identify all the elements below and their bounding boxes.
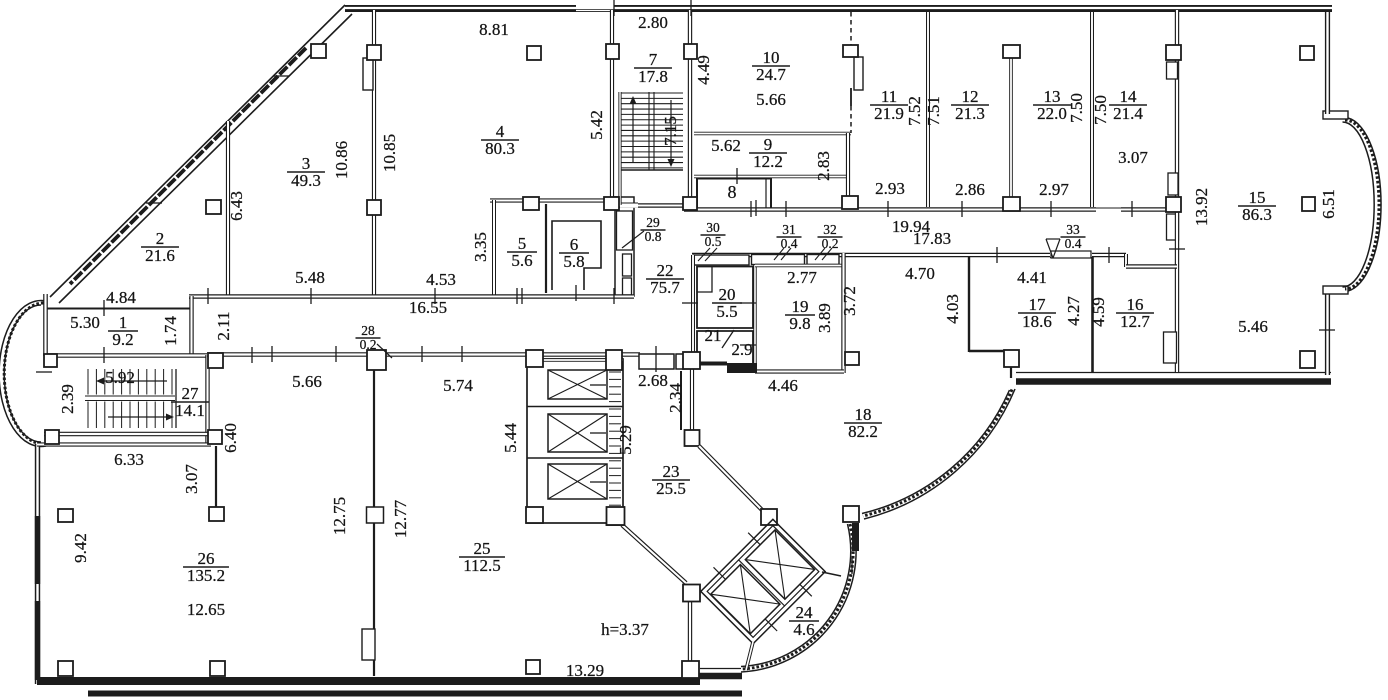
svg-text:0.2: 0.2 [822,236,839,251]
svg-text:32: 32 [823,222,837,237]
wall: corridor south jog [1124,254,1128,267]
column stair 27 SW [45,430,59,444]
wall: between rooms 2 and 3 [226,121,230,296]
svg-text:22.0: 22.0 [1037,104,1067,123]
tick room 27 wall [103,347,105,363]
vent shaft 31 box [752,255,805,265]
svg-text:8.81: 8.81 [479,20,509,39]
svg-text:2.83: 2.83 [814,151,833,181]
svg-text:2.34: 2.34 [666,383,685,413]
svg-text:4.49: 4.49 [694,55,713,85]
tick 16.55 d [516,288,518,304]
svg-text:5.48: 5.48 [295,268,325,287]
svg-text:7.50: 7.50 [1067,93,1086,123]
svg-text:4.27: 4.27 [1064,296,1083,326]
svg-text:8: 8 [728,182,737,202]
svg-text:7.52: 7.52 [905,96,924,126]
tick 5.66 b [335,346,337,362]
svg-text:29: 29 [646,215,660,230]
svg-text:7.51: 7.51 [924,96,943,126]
svg-text:2.77: 2.77 [787,268,817,287]
wall: stub from elevator bank to bottom [746,642,753,670]
wall: bottom exterior step to lobby [695,671,699,685]
door leader 33 [1046,239,1053,258]
svg-text:0.5: 0.5 [705,234,722,249]
door leader 28 [377,344,392,358]
wall: between rooms 5 and 6 [545,204,547,293]
svg-text:4.70: 4.70 [905,264,935,283]
svg-text:9.8: 9.8 [789,314,810,333]
column stair7 left top [606,44,619,59]
svg-text:5.29: 5.29 [616,425,635,455]
wall: room 21 bottom [692,362,727,366]
window stub below SE column [852,523,859,551]
wall: lobby west [688,597,692,663]
wall: step under room 21 [727,363,757,373]
tick 5.74 a [421,346,423,362]
tick elevators 25 c [590,481,606,483]
elevator cell C [548,464,607,499]
wall: curved balcony arc of room 18 [864,389,1015,519]
svg-text:4.6: 4.6 [793,620,814,639]
wall: room 14 / room 15 upper [1175,10,1179,212]
svg-text:6.33: 6.33 [114,450,144,469]
svg-text:6.51: 6.51 [1319,189,1338,219]
column corridor west (1) [208,353,223,368]
svg-text:21.9: 21.9 [874,104,904,123]
tick 19.94 d [1131,201,1133,217]
column rooms 10/11 top [843,45,858,57]
wall: right bay window arc [1348,118,1381,291]
column rooms 5/6 top [523,197,539,210]
svg-text:7.50: 7.50 [1091,95,1110,125]
column on diagonal wall [311,44,326,58]
column elevator bank NE [606,350,622,370]
pilaster on wall 26/25 lower [362,629,375,660]
svg-text:5.30: 5.30 [70,313,100,332]
svg-text:75.7: 75.7 [650,278,680,297]
svg-text:86.3: 86.3 [1242,205,1272,224]
svg-text:2.86: 2.86 [955,180,985,199]
elevator cell A [548,370,607,399]
duct box 2 in shaft wall [623,254,632,276]
wall: right bay upper jut [1323,111,1348,119]
svg-text:5.6: 5.6 [511,251,532,270]
wall: room 17 left [968,257,970,352]
wall: room 4 / stair lower part [610,92,614,199]
wall: elevator bank north [543,358,623,362]
tick 19.94 c [1050,201,1052,217]
svg-text:31: 31 [782,222,796,237]
wall: between rooms 11 and 12 [926,12,930,207]
wall: room 20 box [697,267,753,329]
wall: bottom-right exterior [1016,378,1331,385]
svg-text:12.7: 12.7 [1120,312,1150,331]
tick elevators 25 b [590,432,606,434]
elevator bank 24 casing [701,519,825,643]
wall: room 19 left [753,265,756,372]
wall: dashed partition rooms 10/11 lower [850,106,852,133]
svg-text:4.59: 4.59 [1089,297,1108,327]
tick room20 left [682,302,698,304]
tick 5.48 [613,288,615,304]
wall: room 1 / stair 27 [44,353,211,358]
elevator shaft 24b [745,530,814,599]
wall: room 19 right [841,253,845,373]
svg-text:21: 21 [705,326,722,345]
tick room 21 [740,344,756,346]
tick corridor south c [750,201,752,217]
wall: diagonal lobby north-east [699,446,762,510]
elevator cell B [548,414,607,452]
svg-text:4.03: 4.03 [943,294,962,324]
column room 6 right top [604,197,619,210]
tick 5.66 a [271,346,273,362]
wall: inner enclosure room 6 [552,221,601,290]
pilaster on wall 10/11 [854,57,863,90]
wall: room 8 box [697,179,771,209]
tick elevators 25 a [590,384,606,386]
svg-text:0.8: 0.8 [645,229,662,244]
tick room8 [755,200,757,216]
door opening corridor south (33) [1050,253,1092,258]
wall: room 9 bottom [694,175,847,179]
column on diagonal at room 2/3 [206,200,221,214]
tick room 24 door [851,558,853,574]
svg-text:2.9: 2.9 [731,340,752,359]
column room 10 left bottom [683,197,697,210]
wall: corridor north (19.94) [684,207,1166,211]
svg-text:5.46: 5.46 [1238,317,1268,336]
svg-text:9.42: 9.42 [71,533,90,563]
svg-text:5.66: 5.66 [292,372,322,391]
duct box on wall 14/15 a [1167,62,1178,79]
tick 16.55 b [310,288,312,304]
svg-text:5.44: 5.44 [501,423,520,453]
svg-text:2.68: 2.68 [638,371,668,390]
svg-text:21.6: 21.6 [145,246,175,265]
column room 1 left [44,354,57,367]
wall: left exterior [35,444,40,684]
tick corridor south a [996,247,998,263]
column room 25 bottom [526,660,540,674]
column stair7 right top [684,44,697,59]
column wall 3/4 top [367,45,381,60]
svg-text:2.39: 2.39 [58,384,77,414]
svg-text:0.4: 0.4 [1065,236,1082,251]
wall: right bay lower jut [1323,286,1348,294]
tick corridor south d [785,201,787,217]
column rooms 12/13 bottom [1003,197,1020,211]
wall: stair 7 / room 10 [688,10,692,205]
svg-text:28: 28 [361,323,375,338]
tick left bay [36,371,52,373]
wall: curved balcony arc of lobby 24 [741,524,856,672]
wall: room 19 bottom [755,369,844,373]
tick diag b [146,202,162,204]
column room 15 bottom [1300,351,1315,368]
wall: room 19 top [755,264,843,268]
svg-text:5.92: 5.92 [105,368,135,387]
wall: dashed partition rooms 10/11 upper [850,12,852,45]
column room 26 interior NW [58,509,73,522]
elevator bank 25 divider 1 [527,406,623,408]
tick 16.55 a [207,288,209,304]
svg-text:13.92: 13.92 [1192,188,1211,226]
wall: bottom exterior [37,677,700,685]
svg-text:17.8: 17.8 [638,67,668,86]
tick wall 15 bay [1319,329,1335,331]
svg-text:10.86: 10.86 [332,141,351,179]
svg-text:2.93: 2.93 [875,179,905,198]
svg-text:1.74: 1.74 [161,316,180,346]
svg-text:4.84: 4.84 [106,288,136,307]
svg-text:5.66: 5.66 [756,90,786,109]
wall: room 17 bottom [969,350,1004,352]
svg-text:82.2: 82.2 [848,422,878,441]
tick room 6 bottom [575,285,577,301]
column stair 27 SE [208,430,222,444]
wall: corridor west leg (room 20 left) [691,255,695,368]
vent shaft 32 box [807,255,839,265]
svg-text:3.07: 3.07 [182,464,201,494]
column room 26 SE [210,661,225,676]
tick room9 bottom [736,168,738,184]
wall: partition 10/11 middle [850,88,852,106]
svg-text:2.11: 2.11 [214,311,233,340]
wall: between room 4 and stair 7 [610,10,614,92]
wall: stair 27 right [205,355,209,446]
tick 5.74 b [461,346,463,362]
svg-text:14.1: 14.1 [175,401,205,420]
wall: between rooms 13 and 14 [1090,12,1094,207]
svg-text:112.5: 112.5 [463,556,501,575]
column SE of room 18 arc [843,506,859,522]
duct box 3 in shaft wall [623,278,632,295]
svg-text:3.35: 3.35 [471,232,490,262]
tick room1 [103,300,105,316]
column lobby NE [761,509,777,525]
wall: room 17 stub below column [1010,367,1012,378]
tick room19 label [740,302,756,304]
window: left wall lower [35,601,40,680]
stairs 23 tread marks [609,371,621,373]
column rooms 14/15 top [1166,45,1181,60]
door leader 30 [698,248,710,261]
tick diag a [273,75,289,77]
column wall 3/4 middle [367,200,381,215]
svg-text:25.5: 25.5 [656,479,686,498]
wall: stair 27 bottom [44,432,211,437]
column room 15 middle [1302,197,1315,211]
svg-text:6.43: 6.43 [227,191,246,221]
svg-text:18.6: 18.6 [1022,312,1052,331]
svg-text:12.65: 12.65 [187,600,225,619]
tick 19.94 b [961,201,963,217]
column rooms 10/11 bottom [842,196,858,209]
wall: room 16 / room 15 lower [1175,212,1179,372]
wall: right exterior upper [1325,12,1330,114]
elevator shaft 24a [711,565,780,634]
wall: stub from elevator bank to arc [822,572,841,576]
column room 18 west [685,430,700,446]
column room 15 top [1300,46,1314,60]
tick 19.94 a [887,201,889,217]
door opening corridor north [1096,207,1121,212]
door leader 31 [774,248,784,260]
svg-text:24.7: 24.7 [756,65,786,84]
svg-text:17.83: 17.83 [913,229,951,248]
wall: top of rooms 5 and 6 [490,198,634,202]
door leader 32 [815,248,825,260]
stairs 27 right stringer [175,369,177,428]
column lobby west bottom [682,661,699,678]
wall: between rooms 26 and 25 [373,370,375,676]
svg-text:6.40: 6.40 [221,423,240,453]
column lobby SW top [607,507,624,525]
tick room 5 bottom [521,288,523,304]
column room 4 interior [527,46,541,60]
window: left wall upper [35,516,40,584]
wall: corridor 2.34 side [680,371,682,430]
svg-text:16.55: 16.55 [409,298,447,317]
wall: corridor west end [189,296,193,355]
wall: room 16 north [1126,264,1177,268]
column elevator bank SE [607,507,625,525]
wall: top exterior [345,5,1332,12]
duct box on wall 14/15 c [1167,214,1179,240]
wall: room 9 top [694,132,851,136]
wall: top-left diagonal glazed outer line [50,5,345,297]
wall: corridor south west part [692,253,845,257]
tick corridor south b [1108,247,1110,263]
svg-text:12.2: 12.2 [753,152,783,171]
pilaster right of room 19 [845,352,859,365]
column lobby west mid [683,585,700,602]
svg-text:5.42: 5.42 [587,110,606,140]
svg-text:0.4: 0.4 [781,236,798,251]
wall: stair 7 left side [618,92,621,205]
svg-text:80.3: 80.3 [485,139,515,158]
svg-text:10.85: 10.85 [380,134,399,172]
svg-text:2.97: 2.97 [1039,180,1069,199]
svg-text:5.74: 5.74 [443,376,473,395]
wall: room 26 top right stub [215,446,217,509]
svg-text:0.2: 0.2 [360,337,377,352]
svg-text:7.15: 7.15 [661,116,680,146]
column elevator bank SW [526,507,543,523]
duct box on wall 14/15 b [1168,173,1178,195]
wall: corridor south east part [845,253,1126,257]
svg-text:5.62: 5.62 [711,136,741,155]
wall: between rooms 17 and 16 [1091,257,1094,372]
wall: room 1 top [46,308,190,310]
column room 26 NE [209,507,224,521]
wall: top-left diagonal glazed inner line [59,14,352,303]
elevator bank 25 outline [527,359,623,523]
duct box 1 in shaft wall [617,211,633,250]
svg-text:3.89: 3.89 [815,303,834,333]
door leader 29 [622,231,644,248]
wall: between rooms 12 and 13 [1009,57,1013,198]
svg-text:3.07: 3.07 [1118,148,1148,167]
column room 26 SW [58,661,73,676]
wall: corridor 16.55 top [189,294,634,298]
wall: diagonal lobby south-west [622,525,686,583]
wall: top-left diagonal glazing band [70,48,306,284]
svg-text:12.75: 12.75 [330,497,349,535]
column rooms 12/13 top [1003,45,1020,58]
svg-text:135.2: 135.2 [187,566,225,585]
svg-text:33: 33 [1066,222,1080,237]
tick stair 27 entry [251,347,253,363]
pilaster row west of lobby [639,354,674,369]
wall: right exterior lower [1325,291,1330,375]
wall: below stair 27 outer [37,442,211,446]
vent shaft 30 box [693,255,749,265]
svg-text:4.46: 4.46 [768,376,798,395]
wall: corridor south (5.66/5.74) [207,352,640,357]
wall: room 18 left upper [690,368,694,431]
wall: top exterior window segment [576,5,614,8]
window box on wall 16/15 [1164,332,1177,363]
wall: room 9 right (2.83) [846,133,850,207]
svg-text:h=3.37: h=3.37 [601,620,649,639]
wall: left bay window arc [0,301,46,447]
wall: left exterior piece rooms 1-2 [43,294,48,356]
svg-text:12.77: 12.77 [391,499,410,538]
tick stairs7 top a [613,0,615,16]
tick on wall 15 left [1169,248,1185,250]
stairs 7 treads bottom edge [621,169,683,171]
column at room 17 bottom [1004,350,1019,367]
pilaster on wall room 3/4 [363,58,373,90]
tick 16.55 c [434,288,436,304]
column rooms 14/15 corridor [1166,197,1181,212]
elevator 24 door ticks [714,533,812,631]
svg-text:21.3: 21.3 [955,104,985,123]
column elevator bank NW [526,350,543,367]
svg-text:4.41: 4.41 [1017,268,1047,287]
elevator bank 25 divider 2 [527,457,623,459]
svg-text:13.29: 13.29 [566,661,604,680]
shaft wall right of room 6 [615,197,634,296]
svg-text:49.3: 49.3 [291,171,321,190]
door tick lobby entrance [655,346,657,372]
svg-text:5.5: 5.5 [716,302,737,321]
svg-text:21.4: 21.4 [1113,104,1143,123]
stairs 27 treads and arrows [87,369,89,428]
column lobby north-west [683,352,700,369]
wall: between rooms 3 and 4 [372,10,376,296]
svg-text:3.72: 3.72 [840,286,859,316]
tick stairs7 top b [690,0,692,16]
box on wall 26/25 middle [367,507,384,523]
svg-text:4.53: 4.53 [426,270,456,289]
svg-text:9.2: 9.2 [112,330,133,349]
svg-text:2.80: 2.80 [638,13,668,32]
wall: left of room 5 [492,200,496,295]
stairs 7 bottom landing wall [613,203,697,207]
wall: room 21 box [697,331,753,364]
svg-text:30: 30 [706,220,720,235]
column corridor south at 28 [367,350,386,370]
stairs 7 treads and arrows [621,92,683,94]
svg-text:5.8: 5.8 [563,252,584,271]
